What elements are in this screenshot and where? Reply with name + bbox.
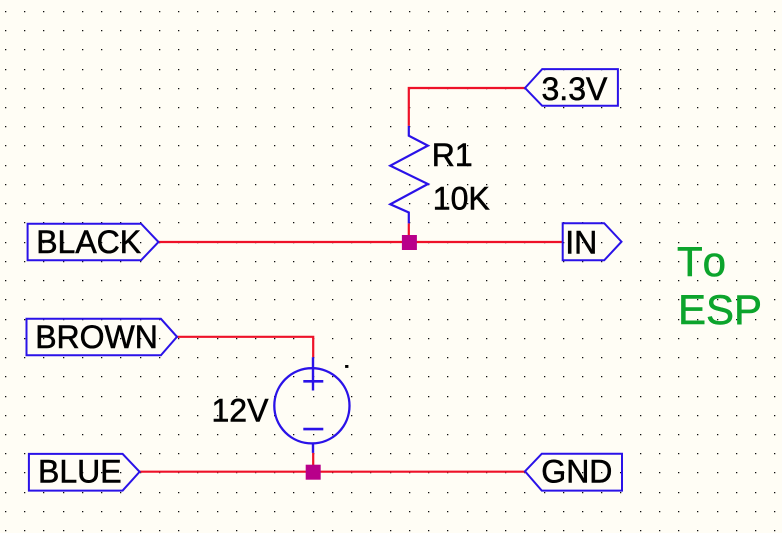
voltage source bottom lead <box>312 444 314 453</box>
svg-text:BLACK: BLACK <box>36 224 141 260</box>
wire resistor bottom to junction <box>408 223 410 242</box>
resistor R1 <box>390 126 428 223</box>
designator period dot <box>345 365 348 368</box>
svg-text:GND: GND <box>541 453 612 489</box>
port GND <box>525 454 622 491</box>
svg-text:12V: 12V <box>212 392 270 428</box>
wire BLACK to IN <box>159 241 563 243</box>
port BROWN <box>27 319 178 356</box>
wire source bottom to junction <box>312 453 314 472</box>
port IN <box>563 223 622 260</box>
port BLACK <box>28 224 159 261</box>
junction at resistor/IN node <box>402 235 417 250</box>
svg-text:R1: R1 <box>432 137 473 173</box>
svg-text:BROWN: BROWN <box>35 319 158 355</box>
junction at GND node <box>306 465 321 480</box>
plus sign bar <box>303 380 323 383</box>
port 3.3V <box>525 69 618 106</box>
voltage source top lead and plus vertical <box>312 357 314 390</box>
svg-text:ESP: ESP <box>678 286 762 333</box>
svg-text:IN: IN <box>565 224 597 260</box>
voltage source V1 circle <box>274 368 349 443</box>
wire 3.3V to resistor top <box>409 88 525 126</box>
svg-text:To: To <box>677 238 726 285</box>
svg-text:3.3V: 3.3V <box>542 71 608 107</box>
port BLUE <box>29 454 140 491</box>
svg-text:BLUE: BLUE <box>38 453 122 489</box>
wire BLUE to GND <box>140 471 525 473</box>
minus sign bar <box>303 428 323 431</box>
wire BROWN to source top <box>177 337 313 357</box>
svg-text:10K: 10K <box>433 180 490 216</box>
